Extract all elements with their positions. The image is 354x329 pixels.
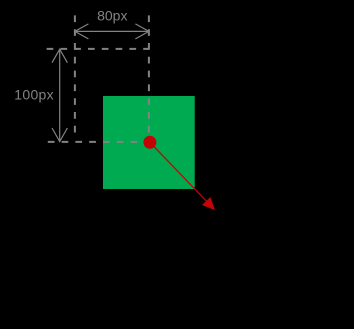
- dimension arrow 100px vertical: [52, 49, 67, 141]
- svg-text:80px: 80px: [97, 8, 127, 24]
- green square element: [103, 96, 195, 189]
- dashed guide top horizontal: [47, 48, 149, 50]
- red dot: [143, 136, 156, 149]
- dashed guide bottom horizontal: [48, 141, 150, 143]
- red vector line: [150, 142, 206, 201]
- dashed guide right vertical: [148, 15, 150, 142]
- dashed guide left vertical: [74, 15, 76, 139]
- dimension arrow 80px horizontal: [75, 24, 149, 39]
- red arrowhead: [202, 197, 215, 210]
- svg-text:100px: 100px: [14, 87, 54, 103]
